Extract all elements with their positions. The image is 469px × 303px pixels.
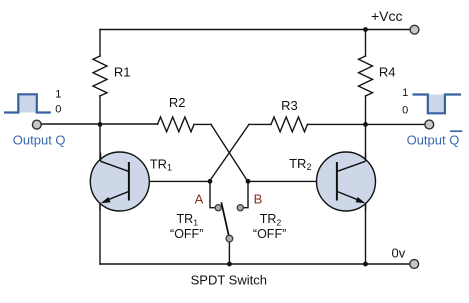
svg-text:1: 1: [402, 87, 408, 99]
svg-text:1: 1: [55, 88, 61, 100]
svg-text:R4: R4: [379, 65, 396, 80]
svg-text:B: B: [254, 192, 263, 207]
svg-text:Output Q: Output Q: [13, 132, 66, 147]
svg-text:TR2: TR2: [260, 212, 282, 227]
svg-text:+Vcc: +Vcc: [371, 8, 403, 24]
svg-text:0v: 0v: [392, 246, 406, 261]
svg-text:R3: R3: [281, 98, 298, 113]
svg-text:0: 0: [402, 105, 408, 117]
svg-text:A: A: [195, 192, 204, 207]
svg-text:“OFF”: “OFF”: [253, 227, 286, 241]
svg-text:TR1: TR1: [177, 212, 199, 227]
svg-text:0: 0: [55, 103, 61, 115]
svg-text:TR2: TR2: [289, 156, 311, 172]
svg-text:“OFF”: “OFF”: [170, 227, 203, 241]
svg-text:TR1: TR1: [150, 156, 172, 172]
svg-text:SPDT Switch: SPDT Switch: [191, 272, 267, 287]
svg-text:Output Q: Output Q: [407, 132, 460, 147]
svg-text:R1: R1: [114, 65, 131, 80]
svg-text:R2: R2: [169, 95, 186, 110]
